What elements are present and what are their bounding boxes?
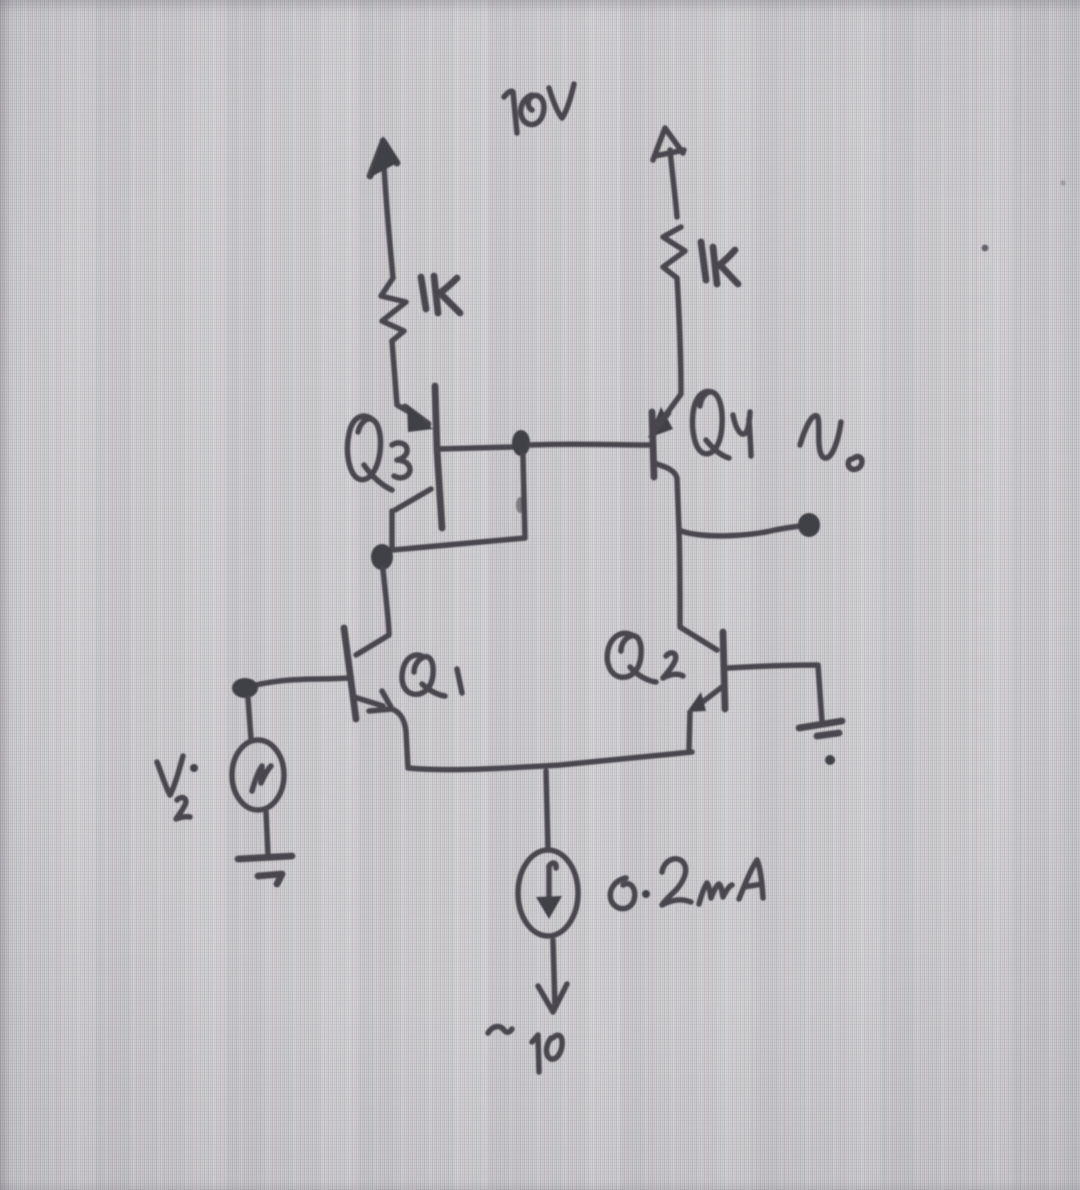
wire: output tap <box>681 526 800 536</box>
label 1K (left) <box>421 276 460 313</box>
ground (right, at Q2 base) <box>799 721 842 765</box>
transistor Q3 bar <box>435 386 442 528</box>
label -10 <box>488 1027 562 1072</box>
wire: tail to current source <box>546 771 548 849</box>
resistor R2 1K (right) <box>663 227 685 278</box>
wire: Q1 emitter down and tail to Q2 emitter <box>392 709 692 770</box>
wire: base wire continues to Q4 <box>530 441 649 447</box>
node: Q3 collector junction dot <box>371 544 393 570</box>
junction: pen stutter on diode wire <box>516 497 524 513</box>
transistor Q1 emitter arrow (NPN) <box>354 691 392 711</box>
label Q4 <box>692 391 751 458</box>
current source I1 (0.2mA) <box>518 850 578 936</box>
ground (below Vi) <box>238 856 292 884</box>
wire: Q3/Q4 common base wire <box>437 447 512 449</box>
wire: resistor to Q3 emitter (with PNP arrow) <box>392 341 433 432</box>
wire: +10V rail left arrow <box>369 136 399 278</box>
transistor Q2 bar <box>723 632 725 709</box>
wire: junction down to Vi source <box>248 698 251 739</box>
label 1K (right) <box>701 242 738 284</box>
label Q3 <box>347 416 410 490</box>
transistor Q4 bar <box>652 412 654 477</box>
node: output terminal dot <box>798 513 820 537</box>
wire: base-to-collector diode connection of Q3 <box>392 455 525 550</box>
resistor R1 1K (left) <box>381 278 406 341</box>
transistor Q1 bar <box>344 628 356 719</box>
node: Vi junction dot <box>232 678 258 698</box>
label Vo <box>800 416 862 470</box>
speck (faint paper blemish) <box>1060 180 1065 185</box>
label Q2 <box>607 633 683 682</box>
label Q1 <box>402 655 462 696</box>
source Vi (AC source circle) <box>232 740 284 810</box>
label Vi <box>157 756 198 819</box>
wire: Q4 collector down to Q2 collector <box>654 463 717 650</box>
label 0.2mA <box>610 859 763 909</box>
wire: Q2 collector (from Q4) is drawn above; Q2 base wire to right <box>728 665 822 722</box>
wire: +10V rail right arrow <box>653 128 684 217</box>
node: base junction dot <box>512 430 530 456</box>
transistor Q2 emitter arrow (NPN) <box>687 687 722 712</box>
transistor Q3 collector lead <box>392 489 431 547</box>
wire: Vi source to ground <box>266 812 268 855</box>
label 10V supply <box>504 84 574 133</box>
speck (paper blemish) <box>982 245 989 252</box>
wire: Q1 base wire <box>256 678 348 685</box>
wire: resistor to Q4 emitter (with PNP arrow) <box>648 278 681 438</box>
wire: current source to negative rail (down arrow) <box>538 940 567 1012</box>
wire: Q3 collector down to Q1 collector <box>356 569 389 655</box>
